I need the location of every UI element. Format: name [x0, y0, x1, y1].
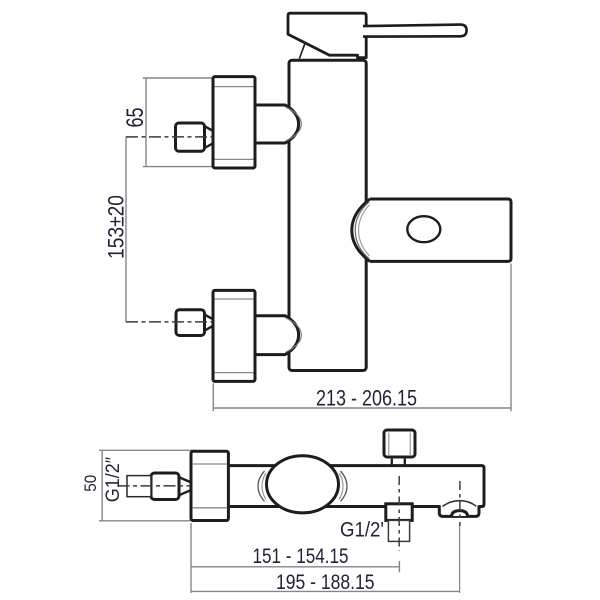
G1/2 nipple — [127, 476, 151, 497]
neck (bottom view) — [180, 478, 190, 495]
svg-text:153±20: 153±20 — [103, 195, 128, 259]
body tube outline — [229, 466, 484, 507]
dimension 50 lines — [99, 450, 194, 521]
upper union stem and nut bulge — [255, 105, 299, 143]
right extension line (spout axis) — [459, 526, 461, 593]
lower eccentric flange — [213, 290, 255, 381]
handle pivot tick — [299, 44, 304, 59]
upper wall union square — [176, 123, 205, 151]
spout centerline — [459, 481, 461, 526]
upper neck — [205, 126, 213, 148]
dimension 151 - 154.15 line — [191, 561, 399, 572]
mounting flange (bottom view) — [191, 451, 228, 520]
cartridge dome (ellipse) — [267, 456, 339, 513]
body tube fill — [229, 466, 484, 507]
handle head — [288, 13, 366, 57]
cartridge dome side arcs — [258, 471, 265, 501]
faucet body (vertical column) — [289, 60, 366, 370]
shower hose pipe — [388, 520, 409, 541]
wall union square (bottom view) — [151, 473, 179, 500]
svg-text:213 - 206.15: 213 - 206.15 — [316, 386, 417, 411]
svg-text:65: 65 — [122, 108, 149, 128]
lower union stem and nut bulge — [255, 316, 299, 355]
aerator insert bump — [452, 511, 468, 516]
wall plate bulge into body — [352, 199, 370, 261]
dimension 195 - 188.15 line — [191, 590, 460, 592]
knob neck — [392, 459, 405, 465]
lower wall union square — [176, 310, 205, 336]
centerline (bottom view left) — [118, 485, 191, 487]
handle lever rod — [363, 25, 467, 37]
svg-text:195 - 188.15: 195 - 188.15 — [276, 570, 375, 594]
dimension 65 line — [143, 78, 213, 167]
lower centerline — [126, 321, 213, 323]
diverter knob — [384, 430, 415, 457]
svg-text:50: 50 — [81, 475, 100, 492]
svg-text:151 - 154.15: 151 - 154.15 — [253, 544, 349, 568]
shower fitting centerline — [398, 476, 400, 551]
wall plate hole (ellipse) — [407, 216, 440, 242]
dimension 213 - 206.15 lines — [213, 264, 511, 412]
lower neck — [205, 315, 213, 331]
svg-text:G1/2″: G1/2″ — [103, 457, 124, 503]
upper centerline — [126, 136, 213, 138]
wall plate (right rectangle) — [370, 199, 511, 261]
left extension line (wall plane) — [190, 523, 192, 593]
spout aerator cup — [439, 505, 479, 516]
shower hose fitting — [386, 504, 412, 521]
dimension 153±20 line — [125, 137, 127, 322]
aerator dome — [443, 501, 477, 507]
svg-text:G1/2': G1/2' — [340, 519, 384, 542]
upper eccentric flange — [213, 77, 255, 168]
